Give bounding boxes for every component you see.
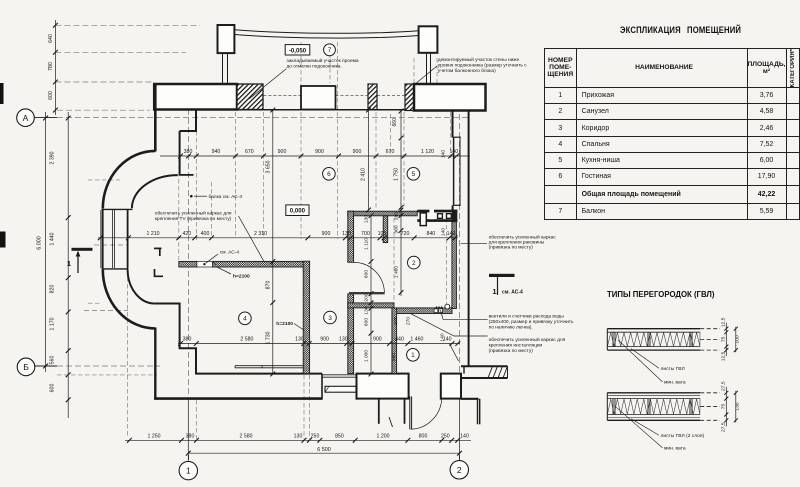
- bay window head: [102, 208, 133, 210]
- west wall outer upper: [154, 84, 157, 152]
- section mark 1 right: [489, 274, 515, 277]
- svg-text:200: 200: [394, 212, 400, 220]
- level 0,000 box: [286, 205, 309, 216]
- svg-text:1 000: 1 000: [364, 350, 370, 363]
- svg-text:2 390: 2 390: [50, 151, 56, 164]
- svg-text:6.000: 6.000: [37, 236, 43, 250]
- svg-text:850: 850: [335, 434, 344, 440]
- west wall inner step: [180, 110, 196, 132]
- balcony door opening: [321, 374, 323, 400]
- left inner chain: [67, 112, 69, 418]
- svg-text:600: 600: [48, 91, 54, 100]
- svg-text:ТИПЫ ПЕРЕГОРОДОК (ГВЛ): ТИПЫ ПЕРЕГОРОДОК (ГВЛ): [607, 290, 715, 299]
- svg-text:130: 130: [735, 402, 741, 410]
- window sill lines room4: [235, 365, 304, 367]
- svg-text:100: 100: [378, 231, 387, 237]
- svg-text:3 650: 3 650: [265, 160, 271, 173]
- svg-text:2 310: 2 310: [254, 231, 267, 237]
- svg-text:(привязка по месту): (привязка по месту): [489, 348, 534, 354]
- porch stem walls: [378, 399, 380, 424]
- svg-text:6 500: 6 500: [317, 447, 331, 453]
- svg-text:2: 2: [412, 260, 416, 267]
- svg-text:учетом балконного блока): учетом балконного блока): [438, 68, 496, 74]
- svg-text:140: 140: [441, 150, 447, 158]
- west wall inner upper: [179, 131, 181, 176]
- svg-text:1 440: 1 440: [50, 232, 56, 245]
- room circle 1: [407, 349, 420, 362]
- svg-text:900: 900: [320, 337, 329, 343]
- svg-text:130: 130: [364, 215, 370, 223]
- room6 vertical dimension 3650/870/1730: [272, 110, 274, 375]
- wall opening dashed lines: [263, 95, 301, 97]
- svg-text:2 580: 2 580: [240, 434, 253, 440]
- svg-text:130: 130: [342, 231, 351, 237]
- svg-text:130: 130: [295, 337, 304, 343]
- balcony column left: [218, 25, 235, 53]
- south wall inner edge: [196, 373, 322, 375]
- bay window frame: [100, 210, 102, 268]
- svg-text:940: 940: [212, 149, 221, 155]
- bay inner sill line: [155, 303, 180, 305]
- bay outer arc top: [103, 151, 156, 209]
- svg-text:обеспечить усиленный каркас дл: обеспечить усиленный каркас для: [155, 210, 232, 217]
- svg-text:(привязка по месту): (привязка по месту): [489, 244, 534, 250]
- south-east wall extension with cut hatch: [461, 365, 508, 367]
- svg-text:обеспечить усиленный каркас: обеспечить усиленный каркас: [489, 233, 557, 240]
- svg-text:до отметки подоконника.: до отметки подоконника.: [287, 64, 342, 69]
- svg-text:130: 130: [364, 306, 370, 314]
- svg-text:100: 100: [735, 335, 741, 343]
- svg-text:900: 900: [373, 337, 382, 343]
- svg-text:обеспечить усиленный каркас дл: обеспечить усиленный каркас для: [489, 336, 566, 343]
- svg-text:640: 640: [48, 34, 54, 43]
- svg-text:200: 200: [364, 293, 370, 301]
- section trace dashes: [94, 244, 128, 246]
- west wall inner lower: [180, 303, 196, 375]
- svg-text:1: 1: [67, 259, 71, 268]
- svg-text:130: 130: [339, 337, 348, 343]
- top wall window block: [301, 86, 336, 110]
- svg-text:крепления инсталляции: крепления инсталляции: [489, 344, 543, 349]
- explication table: [544, 48, 800, 220]
- svg-text:600: 600: [50, 384, 56, 393]
- svg-text:вентили и счетчики расхода вод: вентили и счетчики расхода воды: [489, 314, 565, 319]
- porch east wall: [477, 399, 479, 425]
- svg-text:560: 560: [50, 356, 56, 365]
- bathroom stub partition: [383, 216, 388, 243]
- room circle 6: [323, 168, 336, 181]
- svg-text:360: 360: [394, 225, 400, 233]
- partition type 1: [607, 328, 700, 330]
- svg-text:780: 780: [48, 62, 54, 71]
- top wall small hatched pier 2: [405, 84, 414, 111]
- west wall outer lower: [154, 328, 156, 400]
- kitchen vertical dimension 2410: [368, 110, 370, 210]
- svg-text:250: 250: [441, 434, 450, 440]
- entry right block: [441, 374, 461, 399]
- axis A dashed line: [34, 117, 58, 119]
- scan edge mark 2: [0, 232, 6, 248]
- svg-text:уровня подоконника (размер уто: уровня подоконника (размер уточнить с: [438, 62, 527, 68]
- svg-text:140: 140: [460, 434, 469, 440]
- svg-text:листы ГВЛ: листы ГВЛ: [661, 366, 685, 372]
- room circle 5: [407, 168, 420, 181]
- floor drain circle: [445, 304, 450, 309]
- bathroom west wall upper: [348, 211, 354, 262]
- total 6500 dimension: [188, 452, 459, 454]
- svg-text:h=2100: h=2100: [233, 274, 250, 280]
- axis circle B: [17, 358, 35, 376]
- balcony door panel: [325, 386, 356, 392]
- svg-text:1 250: 1 250: [148, 434, 161, 440]
- bathroom west wall lower: [348, 294, 354, 374]
- svg-text:840: 840: [426, 231, 435, 237]
- svg-text:7: 7: [328, 47, 332, 54]
- svg-text:900: 900: [315, 149, 324, 155]
- bathroom north wall: [348, 211, 417, 216]
- vent grille dots: [436, 306, 437, 307]
- svg-text:870: 870: [265, 281, 271, 290]
- bay inner arc top: [132, 175, 178, 208]
- interior corner line top: [180, 174, 194, 176]
- svg-text:800: 800: [419, 434, 428, 440]
- bathroom east vertical chain: [400, 207, 402, 296]
- svg-text:2: 2: [457, 465, 462, 475]
- vent shaft block: [417, 209, 457, 225]
- svg-text:демонтируемый участок стены ни: демонтируемый участок стены ниже: [438, 56, 520, 63]
- svg-text:см. АС-4: см. АС-4: [220, 249, 240, 255]
- east window upper: [453, 137, 455, 205]
- axis circle A: [17, 109, 35, 127]
- svg-text:600: 600: [364, 270, 370, 278]
- svg-text:700: 700: [361, 231, 370, 237]
- svg-text:3: 3: [328, 315, 332, 322]
- svg-text:4: 4: [243, 316, 247, 323]
- svg-text:560: 560: [391, 353, 397, 361]
- svg-text:2 580: 2 580: [240, 337, 253, 343]
- top wall sill line: [196, 109, 485, 111]
- svg-text:1 730: 1 730: [265, 331, 271, 344]
- TV partition wall h=2100: [179, 261, 197, 267]
- svg-text:820: 820: [50, 285, 56, 294]
- svg-text:1 460: 1 460: [394, 266, 400, 279]
- middle dimension chain: [98, 237, 458, 239]
- svg-text:460: 460: [393, 317, 399, 325]
- svg-text:600: 600: [364, 318, 370, 326]
- left total 6.000: [45, 112, 47, 372]
- svg-text:900: 900: [322, 231, 331, 237]
- room circle 3: [324, 311, 337, 324]
- svg-text:900: 900: [353, 149, 362, 155]
- partition rooms 4/3: [303, 261, 309, 373]
- TV corner mark bottom: [155, 269, 164, 276]
- svg-text:270: 270: [406, 317, 412, 325]
- svg-text:380: 380: [183, 337, 192, 343]
- scan edge mark 1: [0, 83, 4, 104]
- extension dashed verticals: [178, 158, 180, 260]
- svg-text:Б: Б: [23, 362, 29, 372]
- svg-text:140: 140: [440, 228, 446, 236]
- top dimension chain: [160, 155, 470, 157]
- svg-text:1: 1: [411, 352, 415, 359]
- svg-text:75: 75: [720, 404, 726, 410]
- svg-text:380: 380: [186, 434, 195, 440]
- svg-text:12,5: 12,5: [720, 317, 726, 327]
- flue lines left column: [222, 53, 224, 84]
- bay inner arc bottom: [128, 269, 155, 303]
- east wall corner link: [463, 366, 465, 373]
- axis B dashed line: [34, 365, 58, 367]
- south wall outer edge: [154, 397, 322, 400]
- TV corner mark top: [154, 247, 162, 249]
- svg-text:1: 1: [492, 287, 496, 296]
- svg-text:130: 130: [294, 434, 303, 440]
- svg-text:крепления TV (привязка по мест: крепления TV (привязка по месту): [155, 216, 232, 222]
- svg-text:1: 1: [186, 466, 191, 476]
- svg-text:2 410: 2 410: [361, 168, 367, 181]
- room circle 4: [239, 312, 252, 325]
- axis 2 vertical dashed: [459, 96, 461, 390]
- east short wall above vent block: [452, 206, 454, 212]
- lower dimension chain: [178, 343, 460, 345]
- svg-text:27,5: 27,5: [720, 381, 726, 391]
- svg-text:1 200: 1 200: [377, 434, 390, 440]
- vent holes in south wall B: [434, 309, 438, 313]
- svg-text:мин. вата: мин. вата: [664, 381, 686, 386]
- svg-text:250: 250: [311, 434, 320, 440]
- svg-text:380: 380: [184, 149, 193, 155]
- entry vestibule block: [357, 374, 409, 399]
- svg-text:670: 670: [386, 149, 395, 155]
- svg-text:140: 140: [447, 231, 456, 237]
- bathroom west vertical chain: [370, 216, 372, 375]
- svg-text:балка см. АС-4: балка см. АС-4: [209, 194, 243, 200]
- svg-text:1 110: 1 110: [364, 238, 370, 250]
- bay extension dashed: [88, 179, 120, 181]
- svg-text:h=2100: h=2100: [276, 321, 293, 327]
- svg-text:900: 900: [278, 149, 287, 155]
- room circle 7: [324, 44, 336, 56]
- top wall hatched section (bricked opening): [237, 84, 263, 110]
- svg-text:(250x400, размер и привязку ут: (250x400, размер и привязку уточнить: [489, 319, 574, 325]
- svg-text:мин. вата: мин. вата: [664, 447, 686, 452]
- svg-text:420: 420: [182, 231, 191, 237]
- svg-text:400: 400: [201, 231, 210, 237]
- bathroom south wall A: [348, 303, 394, 308]
- axis 1 vertical dashed: [188, 109, 190, 400]
- svg-text:27,5: 27,5: [720, 422, 726, 432]
- balcony top extension dashed lines: [55, 24, 200, 26]
- svg-text:140: 140: [440, 333, 446, 341]
- top wall small hatched pier 1: [368, 84, 377, 110]
- svg-text:140: 140: [449, 149, 458, 155]
- porch threshold tick: [389, 417, 393, 427]
- svg-text:1 120: 1 120: [421, 149, 434, 155]
- axis circle 1: [188, 455, 190, 460]
- partition type 2: [607, 392, 700, 394]
- bathroom door leaf: [349, 292, 385, 294]
- kitchen vertical dimension 1750: [400, 111, 402, 210]
- axis circle 2: [459, 455, 461, 460]
- table title: [620, 24, 800, 35]
- svg-text:12,5: 12,5: [720, 351, 726, 361]
- svg-text:1 750: 1 750: [394, 168, 400, 181]
- entry door swing arc: [410, 397, 442, 430]
- east wall stub above window: [452, 111, 454, 138]
- partition rooms 3/1: [392, 308, 397, 374]
- bay outer arc bottom: [103, 270, 156, 329]
- svg-text:75: 75: [720, 336, 726, 342]
- svg-text:0,000: 0,000: [290, 208, 306, 215]
- top wall left block: [154, 84, 237, 110]
- balcony column right: [419, 26, 438, 53]
- level -0,050 box: [285, 45, 310, 55]
- svg-text:720: 720: [401, 231, 410, 237]
- room circle 2: [408, 256, 421, 269]
- east wall line: [468, 111, 470, 367]
- svg-text:670: 670: [245, 149, 254, 155]
- svg-text:1 170: 1 170: [50, 317, 56, 330]
- svg-text:листы ГВЛ (2 слоя): листы ГВЛ (2 слоя): [661, 433, 705, 439]
- svg-text:см. АС-4: см. АС-4: [502, 290, 523, 296]
- svg-text:1 460: 1 460: [410, 337, 423, 343]
- bathroom south wall B: [394, 308, 452, 314]
- svg-text:5: 5: [412, 171, 416, 178]
- bathroom door swing arc: [354, 262, 385, 293]
- left outer chain 640/780/600: [54, 20, 56, 115]
- top wall right block: [414, 84, 486, 111]
- svg-text:6: 6: [327, 171, 331, 178]
- east hatched wall (GVL): [452, 222, 457, 309]
- svg-text:440: 440: [395, 337, 404, 343]
- entry door leaf: [409, 396, 411, 429]
- flue lines right column: [426, 52, 428, 84]
- svg-text:по наличию лючка).: по наличию лючка).: [489, 324, 533, 330]
- svg-text:закладываемый участок проема: закладываемый участок проема: [287, 57, 359, 64]
- svg-text:1 210: 1 210: [147, 231, 160, 237]
- balcony railing curves: [234, 30, 418, 33]
- svg-text:А: А: [23, 113, 29, 123]
- bottom dimension chain: [125, 439, 471, 441]
- svg-text:-0,050: -0,050: [289, 47, 307, 54]
- svg-text:660: 660: [392, 118, 398, 127]
- section mark 1 left: [72, 248, 93, 251]
